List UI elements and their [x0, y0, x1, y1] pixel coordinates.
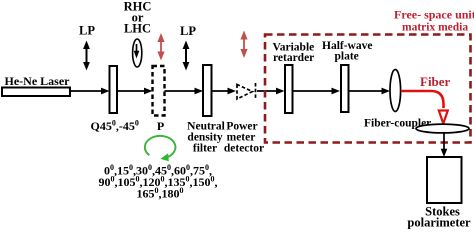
He-Ne laser box: [2, 88, 70, 97]
waveplate ellipse: [133, 39, 142, 67]
red double arrow 1: [160, 39, 162, 54]
svg-text:retarder: retarder: [273, 52, 314, 64]
svg-text:LP: LP: [79, 24, 95, 38]
collection lens ellipse (horizontal): [416, 124, 469, 133]
neutral density filter bar: [203, 65, 212, 116]
svg-text:LHC: LHC: [124, 22, 151, 36]
wire: VR to half-wave plate: [293, 90, 335, 92]
wire: ND to detector: [212, 90, 231, 92]
svg-text:P: P: [157, 119, 164, 133]
wire: detector to variable retarder: [257, 90, 279, 92]
red open arrowhead: [439, 111, 448, 124]
LP double arrow 1: [86, 45, 88, 66]
red fiber curve: [401, 91, 444, 108]
wire: P to ND filter: [165, 90, 198, 92]
Stokes polarimeter box: [427, 157, 462, 203]
svg-text:He-Ne Laser: He-Ne Laser: [5, 74, 71, 88]
wire: HWP to fiber coupler lens: [349, 90, 385, 92]
red double arrow 2: [243, 37, 245, 52]
dashed rect P (rotating polarizer): [153, 66, 165, 116]
wire: laser to polarizer Q: [70, 90, 103, 92]
power meter detector (dashed photodiode): [237, 85, 253, 100]
svg-text:plate: plate: [335, 51, 359, 63]
LP double arrow 2: [185, 45, 187, 66]
down arrow in ellipse: [136, 44, 138, 52]
svg-text:Free- space unit: Free- space unit: [394, 8, 474, 22]
fiber coupler lens ellipse: [390, 70, 401, 112]
svg-text:1650,1800: 1650,1800: [137, 186, 184, 201]
polarizer bar Q45: [110, 66, 118, 113]
svg-text:LP: LP: [180, 24, 196, 38]
svg-text:detector: detector: [224, 143, 264, 155]
svg-text:matrix media: matrix media: [402, 22, 468, 34]
wire: lens down to Stokes polarimeter: [443, 133, 445, 151]
red dashed box: free-space unit matrix media: [265, 35, 471, 143]
svg-text:filter: filter: [193, 143, 217, 155]
wire: Q to P: [117, 90, 147, 92]
svg-text:polarimeter: polarimeter: [407, 216, 471, 230]
green rotation arrow: [145, 136, 176, 158]
half-wave plate bar: [341, 65, 349, 112]
svg-text:Fiber: Fiber: [420, 74, 451, 89]
variable retarder bar: [285, 65, 293, 113]
